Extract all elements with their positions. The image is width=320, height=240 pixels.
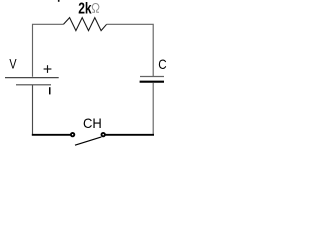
svg-text:2k: 2k — [78, 0, 91, 17]
label Ω — [92, 4, 99, 13]
label I — [49, 87, 51, 94]
svg-text:C: C — [158, 56, 166, 72]
resistor R1 2kΩ — [64, 18, 107, 31]
battery V — [5, 78, 59, 85]
label + — [44, 65, 52, 73]
svg-text:CH: CH — [83, 115, 102, 131]
artifact tick — [58, 0, 60, 2]
switch CH — [71, 133, 105, 145]
capacitor C — [140, 77, 164, 82]
wire — [105, 134, 154, 136]
svg-text:V: V — [9, 55, 17, 71]
wire — [152, 83, 154, 134]
wire — [32, 85, 34, 134]
wire — [33, 24, 64, 77]
wire — [107, 24, 154, 76]
wire — [32, 134, 71, 136]
